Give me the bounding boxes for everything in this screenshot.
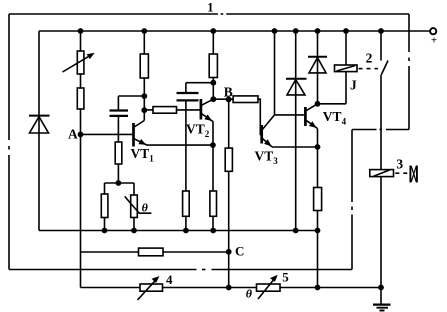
relay coil J bbox=[335, 65, 358, 72]
resistor R7 bbox=[209, 54, 217, 78]
svg-text:5: 5 bbox=[282, 270, 289, 285]
node A bbox=[78, 132, 84, 138]
svg-text:C: C bbox=[235, 244, 244, 259]
svg-text:θ: θ bbox=[246, 286, 253, 300]
wire: line-1 frame right side (dash-dot) bbox=[408, 14, 410, 130]
capacitor C1 bbox=[110, 111, 129, 116]
junction dot bbox=[141, 107, 147, 113]
thermistor RT1 bbox=[125, 195, 152, 218]
junction dot on rail bbox=[378, 28, 384, 34]
wire: R3 branch bbox=[104, 183, 106, 231]
wire: VT3 emitter to VT4 emitter bbox=[272, 146, 318, 148]
resistor R13 (on line B) bbox=[139, 248, 164, 256]
node B dot bbox=[226, 97, 232, 103]
transistor VT4 bbox=[305, 104, 317, 129]
mechanical link to sounder (dashed) bbox=[395, 172, 407, 174]
wire: VT3 collector to VT4 base bbox=[275, 114, 305, 116]
wire: node A to VT1 base bbox=[81, 133, 133, 135]
junction dot on line D bbox=[315, 285, 321, 291]
wire: node B bbox=[213, 98, 233, 100]
wire: C1 top to VT1 collector node bbox=[118, 95, 144, 97]
resistor R3 bbox=[101, 194, 108, 218]
rheostat RP1 bbox=[63, 51, 94, 74]
wire: VT2 collector branch (x=213.3) bbox=[212, 31, 214, 99]
wire: VD3 / VT4 collector branch (x=317.5) bbox=[317, 31, 319, 104]
wire: to ground bbox=[380, 177, 382, 305]
wire: VT3 collector branch (x=274.5) bbox=[274, 31, 276, 115]
junction dot VT4 collector node bbox=[315, 101, 321, 107]
wire: +V supply rail bbox=[39, 30, 430, 32]
junction dot bbox=[210, 96, 216, 102]
svg-text:+: + bbox=[431, 35, 437, 47]
junction dot on rail bbox=[272, 28, 278, 34]
junction dot on line A bbox=[183, 228, 189, 234]
capacitor C2 bbox=[177, 93, 199, 100]
svg-text:VT3: VT3 bbox=[255, 149, 279, 166]
wire: bus line D bottom (y=287.5) bbox=[81, 287, 382, 289]
resistor R2 bbox=[77, 88, 84, 109]
mechanical link relay to contact (dashed) bbox=[359, 68, 379, 70]
resistor R6 (VT1 collector to VT2 base) bbox=[144, 107, 200, 114]
wire: line-1 frame left side (dash-dot) bbox=[8, 14, 10, 270]
svg-text:VT4: VT4 bbox=[323, 109, 347, 126]
wire: C2 branch (x=185.9) bbox=[186, 83, 213, 231]
wire: line-1 frame bottom horizontal (dash-dot) bbox=[9, 269, 352, 271]
rheostat 4 bbox=[138, 277, 163, 300]
transistor VT2 bbox=[201, 99, 213, 122]
wire: VT4 emitter down bbox=[317, 129, 319, 288]
junction dot on rail bbox=[315, 28, 321, 34]
svg-text:A: A bbox=[68, 127, 78, 142]
wire: thermistor branch bbox=[133, 183, 135, 231]
junction dot emitters VT3/VT4 bbox=[315, 144, 321, 150]
wire: divider branch (x=80.5) bbox=[80, 31, 82, 288]
junction dot bbox=[141, 93, 147, 99]
junction dot on rail bbox=[210, 28, 216, 34]
wire: B divider branch (x=226) bbox=[228, 99, 230, 287]
thermistor 5 bbox=[257, 276, 281, 299]
relay contact 2 (switch) bbox=[381, 31, 388, 170]
junction dot bbox=[210, 80, 216, 86]
wire: VT2 emitter down bbox=[212, 122, 214, 231]
transistor VT1 bbox=[134, 121, 148, 147]
diode VD1 bbox=[29, 116, 50, 133]
resistor R12 bbox=[314, 188, 322, 211]
wire: line-1 frame lower-right horizontal (dash-dot) bbox=[352, 129, 409, 131]
piezo sounder bbox=[410, 166, 417, 183]
transistor VT3 bbox=[262, 115, 275, 147]
resistor R4 bbox=[115, 142, 122, 164]
svg-text:VT2: VT2 bbox=[186, 122, 210, 139]
svg-text:θ: θ bbox=[142, 200, 149, 214]
junction dot on line A bbox=[210, 228, 216, 234]
junction dot on line D bbox=[226, 285, 232, 291]
wire: theta pair top join bbox=[105, 182, 135, 184]
svg-text:1: 1 bbox=[207, 1, 213, 15]
wire: VD2 branch (x=295.7) bbox=[295, 31, 297, 231]
junction dot on rail bbox=[343, 28, 349, 34]
sounder drive element 3 bbox=[370, 170, 394, 177]
wire: relay branch bbox=[318, 31, 347, 104]
resistor R10 bbox=[225, 148, 232, 171]
svg-text:J: J bbox=[350, 78, 357, 93]
junction dot on rail bbox=[78, 28, 84, 34]
wire: VT1 collector branch (x=144.3) bbox=[143, 31, 145, 121]
junction dot bbox=[116, 180, 122, 186]
terminal + bbox=[430, 28, 436, 34]
wire: line-1 frame mid vertical (dash-dot) bbox=[351, 130, 353, 270]
svg-text:4: 4 bbox=[166, 272, 173, 287]
ground bbox=[373, 305, 391, 311]
junction dot VT1/VT2 emitters bbox=[210, 142, 216, 148]
junction dot on line D bbox=[378, 285, 384, 291]
wire: C1/R4 branch (x=118.4) bbox=[117, 96, 119, 183]
junction dot on line A bbox=[102, 228, 108, 234]
junction dot on line A bbox=[131, 228, 137, 234]
svg-text:VT1: VT1 bbox=[131, 146, 155, 163]
junction dot on rail bbox=[141, 28, 147, 34]
junction dot line A end bbox=[315, 228, 321, 234]
svg-text:2: 2 bbox=[366, 50, 373, 65]
junction dot on line A bbox=[293, 228, 299, 234]
wire: line-1 frame top segment bbox=[9, 13, 409, 15]
resistor R5 bbox=[140, 54, 148, 78]
resistor R9 bbox=[210, 191, 217, 216]
resistor R8 bbox=[183, 191, 190, 216]
wire: VT1 emitter to VT2 emitter bbox=[147, 144, 213, 146]
node C bbox=[226, 249, 232, 255]
resistor R11 (B to VT3 base) bbox=[233, 96, 261, 135]
wire: bus line A bottom (y=230.5) bbox=[39, 230, 318, 232]
wire: bus line B (y=252) bbox=[81, 251, 229, 253]
diode VD2 bbox=[286, 79, 307, 95]
svg-text:3: 3 bbox=[396, 157, 403, 172]
diode VD3 bbox=[308, 57, 327, 73]
svg-text:B: B bbox=[224, 84, 233, 99]
junction dot on rail bbox=[293, 28, 299, 34]
wire: left branch vertical bbox=[38, 31, 40, 231]
